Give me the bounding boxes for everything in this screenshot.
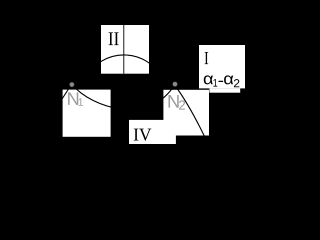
label N1 — [68, 92, 83, 105]
N2 right branch — [175, 85, 206, 140]
N1 left branch — [61, 84, 71, 100]
label IV — [134, 129, 152, 141]
vertical axis line — [123, 25, 125, 74]
region IV white box — [129, 120, 176, 144]
label I — [205, 52, 209, 64]
label II — [109, 32, 119, 45]
node N1 white box — [63, 90, 111, 137]
alpha label white strip — [209, 88, 240, 92]
label alpha1-alpha2 — [204, 75, 240, 87]
region I white box — [199, 45, 245, 88]
region II white box — [101, 25, 149, 74]
label N2 — [169, 95, 186, 110]
upper caustic arc N1 to N2 — [87, 55, 161, 76]
lower caustic curve N1 to N2 — [72, 84, 175, 109]
node N1 dot — [69, 82, 74, 87]
node N2 white box — [163, 90, 209, 136]
node N2 dot — [172, 81, 177, 86]
